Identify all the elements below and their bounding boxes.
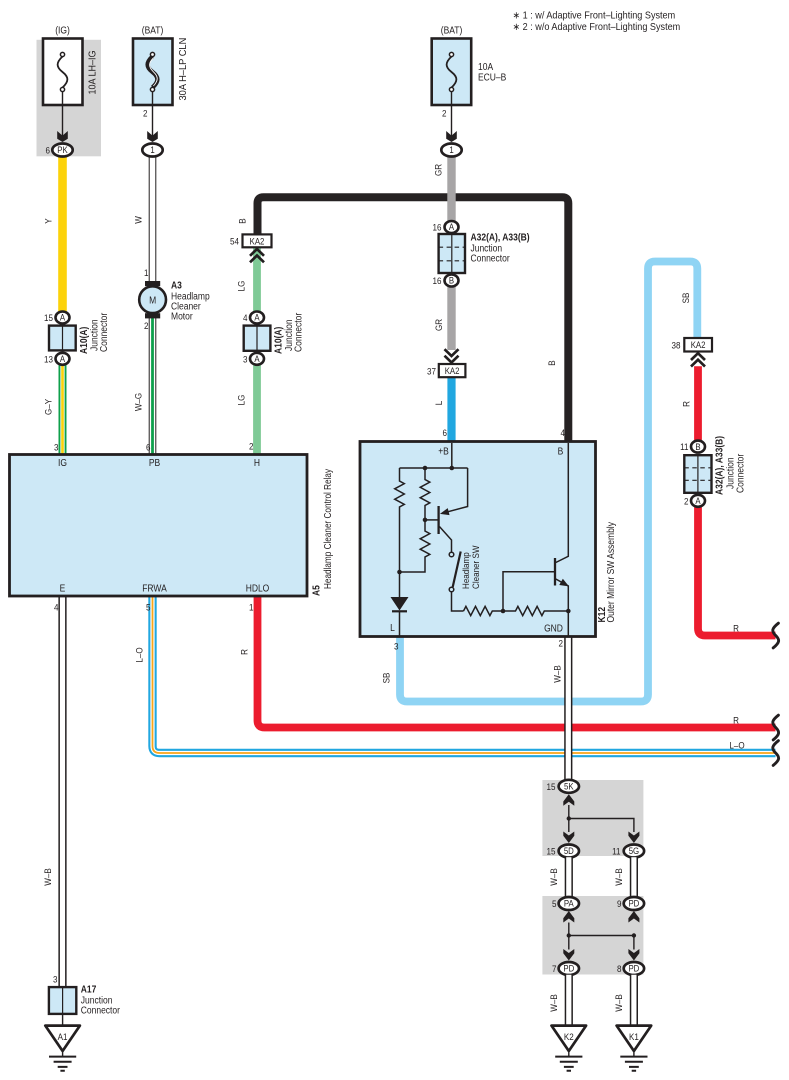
label A5: [311, 585, 322, 596]
svg-text:9: 9: [617, 898, 622, 909]
oval A top A10(A): [56, 312, 70, 324]
arrow down into PD bottom-left: [563, 949, 574, 961]
svg-text:B: B: [695, 441, 700, 452]
svg-text:KA2: KA2: [250, 236, 265, 247]
label W-B: [548, 868, 559, 886]
svg-text:11: 11: [680, 441, 688, 452]
svg-text:Connector: Connector: [293, 313, 304, 352]
svg-text:B: B: [558, 446, 564, 457]
svg-text:Connector: Connector: [98, 313, 109, 352]
svg-text:Y: Y: [43, 218, 54, 223]
svg-text:B: B: [449, 275, 454, 286]
svg-text:11: 11: [612, 846, 620, 857]
svg-text:3: 3: [243, 354, 248, 365]
svg-text:H: H: [254, 457, 260, 468]
thin wires panel 1: [569, 805, 634, 832]
junction connector A32(A),A33(B) box: [439, 234, 465, 273]
arrow up into PA: [563, 911, 574, 923]
wire diode feed: [399, 572, 401, 597]
wire W-B 5D to PA: [565, 857, 573, 897]
svg-text:Cleaner SW: Cleaner SW: [470, 545, 481, 589]
oval 5G: [624, 845, 644, 858]
svg-text:SB: SB: [381, 673, 392, 684]
svg-text:A: A: [60, 312, 65, 323]
ground K2: [552, 1026, 587, 1051]
svg-text:∗ 2 : w/o Adaptive Front–Light: ∗ 2 : w/o Adaptive Front–Lighting System: [513, 21, 681, 33]
svg-text:PD: PD: [628, 963, 639, 974]
wire fuse IG to arrow: [62, 92, 64, 141]
label R right vertical: [681, 401, 692, 407]
oval B A32 right: [691, 441, 705, 453]
label L-O vertical: [134, 647, 145, 662]
wire R from A5 HDLO to right edge: [258, 596, 776, 728]
svg-text:Motor: Motor: [171, 311, 193, 322]
svg-text:5G: 5G: [629, 846, 639, 857]
chevron pair up: [691, 353, 705, 366]
svg-text:LG: LG: [236, 280, 247, 291]
K12 internals: [395, 443, 569, 636]
svg-text:16: 16: [433, 275, 442, 286]
label SB near pin3: [381, 673, 392, 684]
svg-text:54: 54: [230, 236, 239, 247]
svg-text:15: 15: [547, 781, 556, 792]
resistor R2: [420, 468, 430, 520]
wire W-B from A5 E to A17: [58, 596, 66, 988]
svg-text:30A H–LP CLN: 30A H–LP CLN: [178, 38, 189, 101]
junction dot: [567, 816, 571, 820]
label W-B: [613, 868, 624, 886]
svg-text:Connector: Connector: [81, 1005, 120, 1016]
break squiggle R upper: [773, 623, 779, 648]
svg-text:1: 1: [449, 145, 454, 156]
oval 5K: [559, 780, 579, 793]
svg-text:37: 37: [427, 366, 436, 377]
junction dots: [567, 933, 571, 937]
svg-text:A17: A17: [81, 984, 97, 995]
wire W-B PD to K1 ground: [630, 975, 638, 1026]
wire LG lower segment: [253, 364, 261, 456]
svg-text:KA2: KA2: [691, 340, 706, 351]
label LG lower: [236, 394, 247, 405]
svg-text:A10(A): A10(A): [273, 327, 284, 354]
break squiggle R lower: [773, 715, 779, 740]
connector KA2 37: [439, 364, 466, 377]
wire top rail: [400, 467, 468, 469]
label SB right: [680, 293, 691, 304]
transistor Q2 base bar: [554, 558, 556, 586]
wire switch to resistor R4: [452, 592, 464, 611]
wire GND down: [567, 611, 569, 636]
svg-text:15: 15: [547, 846, 556, 857]
label K12: [596, 607, 607, 623]
transistor Q1 emitter arrow: [441, 509, 449, 515]
wire R from junction A to right edge: [698, 507, 776, 636]
junction connector A10(A) box: [49, 326, 76, 351]
label A10(A): [78, 327, 89, 354]
resistor R5: [503, 606, 568, 615]
svg-text:(BAT): (BAT): [441, 25, 463, 36]
ground K1: [617, 1026, 652, 1051]
svg-text:KA2: KA2: [445, 365, 460, 376]
connector KA2 38: [684, 338, 712, 352]
svg-text:A10(A): A10(A): [78, 327, 89, 354]
svg-text:1: 1: [150, 145, 155, 156]
svg-text:13: 13: [44, 354, 53, 365]
svg-text:ECU–B: ECU–B: [478, 72, 506, 83]
wire GR upper segment: [447, 156, 455, 221]
connector KA2 54: [243, 234, 272, 247]
wire emitter approach Q1: [443, 468, 468, 513]
wire emitter Q2: [556, 579, 569, 611]
svg-text:A: A: [695, 495, 700, 506]
svg-text:GND: GND: [544, 623, 563, 634]
svg-text:R: R: [239, 649, 250, 655]
svg-text:4: 4: [561, 427, 566, 438]
wire L (blue) KA2-37 to K12 +B: [447, 377, 455, 442]
switch headlamp cleaner SW: [449, 552, 454, 557]
svg-text:5K: 5K: [564, 781, 574, 792]
svg-text:1: 1: [144, 267, 149, 278]
svg-text:5: 5: [146, 602, 151, 613]
wire L-O from A5 FRWA to right edge: [153, 596, 776, 753]
thin wires panel 2: [569, 923, 634, 950]
svg-text:B: B: [546, 360, 557, 365]
svg-text:2: 2: [143, 108, 148, 119]
label R at HDLO: [239, 649, 250, 655]
oval PD bottom-left: [559, 962, 579, 975]
diode D1: [391, 597, 409, 611]
arrow down into PD bottom-right: [628, 949, 639, 961]
svg-text:6: 6: [46, 145, 51, 156]
svg-text:HDLO: HDLO: [246, 583, 270, 594]
svg-text:W–G: W–G: [133, 393, 144, 411]
junction dots K12: [397, 466, 570, 614]
svg-text:W–B: W–B: [613, 994, 624, 1012]
svg-text:M: M: [149, 295, 156, 306]
arrow into PK: [57, 131, 68, 142]
svg-text:W–B: W–B: [548, 994, 559, 1012]
svg-text:W–B: W–B: [613, 868, 624, 886]
svg-text:∗ 1 : w/ Adaptive Front–Lighti: ∗ 1 : w/ Adaptive Front–Lighting System: [513, 10, 676, 22]
gray panel behind IG fuse: [37, 40, 102, 157]
svg-text:L–O: L–O: [134, 647, 145, 662]
svg-text:LG: LG: [236, 394, 247, 405]
svg-text:L: L: [390, 622, 395, 633]
label GR lower: [433, 319, 444, 331]
label W-B: [613, 994, 624, 1012]
svg-text:W–B: W–B: [42, 868, 53, 886]
transistor Q2 emitter arrow: [560, 580, 568, 586]
label G-Y: [43, 399, 54, 415]
svg-text:A5: A5: [311, 585, 322, 596]
oval B A32: [445, 275, 459, 287]
connector oval PK: [52, 144, 72, 157]
arrow down into 5G: [628, 832, 639, 844]
svg-text:PK: PK: [57, 145, 68, 156]
label headlamp cleaner SW: [460, 552, 471, 589]
svg-text:2: 2: [559, 638, 564, 649]
wire +B feed: [451, 443, 453, 468]
svg-text:1: 1: [249, 602, 254, 613]
svg-text:(BAT): (BAT): [142, 25, 164, 36]
svg-text:2: 2: [249, 441, 254, 452]
svg-text:W: W: [133, 216, 144, 224]
label W-B left: [42, 868, 53, 886]
wire W-G from motor to A5 PB: [149, 318, 157, 455]
label Y: [43, 218, 54, 223]
oval A bottom A10(A) col3: [250, 353, 264, 365]
wire base Q2: [503, 572, 554, 611]
wire collector Q1 to switch: [439, 527, 451, 553]
wire G-Y from A10(A) to A5 IG: [59, 364, 67, 456]
svg-text:GR: GR: [433, 319, 444, 331]
arrow down into 5D: [563, 832, 574, 844]
chevron pair up: [250, 249, 264, 262]
label W-G: [133, 393, 144, 411]
svg-text:A: A: [449, 222, 454, 233]
svg-text:4: 4: [243, 312, 248, 323]
oval A top A10(A) col3: [250, 312, 264, 324]
svg-text:W–B: W–B: [552, 665, 563, 683]
svg-text:GR: GR: [433, 164, 444, 176]
oval A A32 right: [691, 495, 705, 507]
oval PD top-right: [624, 897, 644, 910]
svg-text:G–Y: G–Y: [43, 399, 54, 415]
svg-text:Headlamp Cleaner Control Relay: Headlamp Cleaner Control Relay: [322, 469, 333, 589]
oval A A32: [445, 221, 459, 233]
svg-text:A: A: [254, 312, 259, 323]
svg-text:W–B: W–B: [548, 868, 559, 886]
connector oval 1: [441, 144, 461, 157]
wire A17 to ground: [62, 1014, 64, 1026]
svg-text:R: R: [681, 401, 692, 407]
svg-text:4: 4: [54, 602, 59, 613]
wire base link Q1: [425, 519, 438, 521]
svg-text:L: L: [433, 401, 444, 406]
svg-text:15: 15: [44, 312, 53, 323]
wire SB loop from K12 pin3 to KA2-38: [400, 262, 697, 702]
gray panel 1: [542, 780, 643, 856]
svg-text:K1: K1: [629, 1031, 639, 1042]
svg-text:2: 2: [442, 108, 447, 119]
svg-text:10A: 10A: [478, 61, 494, 72]
wire diode to pin L: [399, 611, 401, 637]
label A32(A), A33(B) right rotated: [714, 436, 725, 495]
svg-text:R: R: [733, 715, 739, 726]
resistor R1: [395, 468, 405, 572]
svg-text:(IG): (IG): [55, 25, 70, 36]
svg-text:3: 3: [54, 442, 59, 453]
svg-text:Outer Mirror SW Assembly: Outer Mirror SW Assembly: [605, 522, 616, 623]
svg-text:L–O: L–O: [729, 740, 744, 751]
wire Y (yellow) from PK to A10(A): [58, 156, 67, 313]
arrow into oval 1: [147, 131, 158, 142]
svg-text:2: 2: [144, 320, 149, 331]
label A10(A) col3: [273, 327, 284, 354]
junction connector A17: [49, 987, 76, 1014]
wire R from KA2-38 to junction B: [694, 366, 702, 441]
svg-text:A32(A), A33(B): A32(A), A33(B): [714, 436, 725, 495]
wire B (black) KA2-54 to K12 pin4: [258, 197, 569, 441]
label B left: [237, 218, 248, 223]
svg-text:6: 6: [146, 442, 151, 453]
wire GR lower segment: [447, 286, 455, 351]
svg-text:6: 6: [443, 427, 448, 438]
svg-text:38: 38: [672, 340, 681, 351]
arrow up into PD top: [628, 911, 639, 923]
svg-text:IG: IG: [58, 457, 67, 468]
svg-text:PD: PD: [628, 898, 639, 909]
svg-text:3: 3: [53, 974, 58, 985]
svg-text:A32(A), A33(B): A32(A), A33(B): [471, 232, 530, 243]
svg-text:PB: PB: [149, 457, 160, 468]
oval 5D: [559, 845, 579, 858]
break squiggle L-O: [773, 741, 779, 766]
label W-B: [548, 994, 559, 1012]
svg-text:A3: A3: [171, 280, 182, 291]
label LG upper: [236, 280, 247, 291]
gray panel 2: [542, 896, 643, 975]
wire W-B 5G to PD: [630, 857, 638, 897]
wire fuse ECU-B to arrow: [451, 92, 453, 141]
svg-text:B: B: [237, 218, 248, 223]
resistor R4: [464, 606, 504, 615]
wire W (white) fuse to motor: [149, 156, 157, 281]
oval PD bottom-right: [624, 962, 644, 975]
wire W-B PD to K2 ground: [565, 975, 573, 1026]
svg-text:PA: PA: [564, 898, 574, 909]
oval A bottom A10(A): [56, 353, 70, 365]
wire W-B from K12 GND to 5K: [564, 637, 572, 781]
svg-text:FRWA: FRWA: [142, 583, 167, 594]
svg-text:PD: PD: [563, 963, 574, 974]
svg-text:16: 16: [433, 222, 442, 233]
motor A3: [145, 281, 160, 286]
chevron pair down: [445, 349, 459, 362]
junction connector A32(A),A33(B) right box: [684, 455, 711, 493]
arrow into oval 1: [446, 131, 457, 142]
svg-text:A: A: [60, 353, 65, 364]
svg-text:10A LH–IG: 10A LH–IG: [87, 51, 99, 95]
svg-text:8: 8: [617, 963, 622, 974]
svg-text:5: 5: [552, 898, 557, 909]
svg-text:+B: +B: [438, 446, 449, 457]
label GR upper: [433, 164, 444, 176]
connector oval 1: [142, 144, 162, 157]
label B right: [546, 360, 557, 365]
transistor Q1 base bar: [437, 506, 439, 534]
svg-text:K2: K2: [564, 1031, 574, 1042]
label W: [133, 216, 144, 224]
label W-B GND: [552, 665, 563, 683]
wire collector Q2 to B: [556, 443, 569, 563]
svg-text:Connector: Connector: [471, 253, 510, 264]
arrow up into 5K: [563, 794, 574, 806]
svg-text:E: E: [60, 583, 66, 594]
junction connector A10(A) box col3: [244, 326, 271, 351]
wire fuse BAT to arrow: [152, 92, 154, 141]
svg-text:2: 2: [684, 496, 689, 507]
svg-text:7: 7: [552, 963, 557, 974]
svg-text:5D: 5D: [564, 846, 574, 857]
svg-text:3: 3: [394, 641, 399, 652]
resistor R3: [400, 520, 430, 572]
svg-text:Connector: Connector: [735, 454, 746, 493]
wire LG upper segment: [253, 248, 261, 313]
svg-text:SB: SB: [680, 293, 691, 304]
oval PA: [559, 897, 579, 910]
svg-text:R: R: [733, 623, 739, 634]
ground A1: [45, 1026, 80, 1051]
svg-text:A: A: [254, 353, 259, 364]
svg-text:A1: A1: [58, 1031, 68, 1042]
label L: [433, 401, 444, 406]
